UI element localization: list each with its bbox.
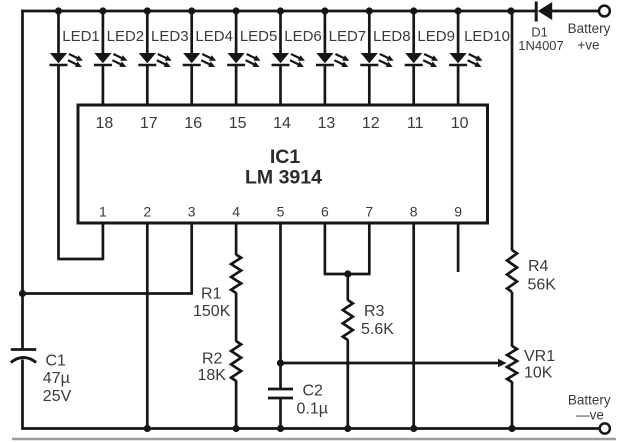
svg-text:6: 6 xyxy=(321,203,329,219)
junction: LED4 anode on +V bus xyxy=(188,7,195,14)
terminal: battery -ve circle xyxy=(600,423,610,433)
terminal: battery +ve circle xyxy=(599,6,610,17)
svg-text:LED2: LED2 xyxy=(107,28,145,45)
junction: pin 8 wire on bottom bus xyxy=(410,425,417,432)
wire: LED1 cathode elbow to pin 1 xyxy=(57,258,103,261)
wire: bottom -ve bus xyxy=(21,427,599,430)
junction: LED3 anode on +V bus xyxy=(144,7,151,14)
svg-text:LED1: LED1 xyxy=(62,28,100,45)
potentiometer VR1 10K xyxy=(507,346,517,382)
svg-text:R4: R4 xyxy=(528,258,549,275)
LED LED5 xyxy=(227,10,260,107)
junction: LED2 anode on +V bus xyxy=(99,7,106,14)
junction: R3 on bottom bus xyxy=(344,425,351,432)
svg-text:VR1: VR1 xyxy=(524,348,555,365)
wire: R3 top lead xyxy=(346,274,349,301)
svg-text:LED10: LED10 xyxy=(464,28,510,45)
svg-text:17: 17 xyxy=(140,115,158,132)
wire: pin 1 stub xyxy=(102,223,105,260)
svg-text:8: 8 xyxy=(410,203,418,219)
wire: signal node down to C2 xyxy=(279,363,282,389)
svg-text:LM 3914: LM 3914 xyxy=(245,167,322,189)
svg-text:1: 1 xyxy=(99,203,107,219)
svg-text:+ve: +ve xyxy=(577,37,599,52)
junction: signal node (pin5 / C2 / VR1 wiper wire) xyxy=(277,359,284,366)
svg-text:9: 9 xyxy=(454,203,462,219)
svg-text:LED9: LED9 xyxy=(417,28,455,45)
LED LED9 xyxy=(405,10,438,107)
wire: R2 to bottom bus xyxy=(235,381,238,429)
svg-text:3: 3 xyxy=(188,203,196,219)
svg-text:16: 16 xyxy=(184,115,202,132)
svg-text:5: 5 xyxy=(277,203,285,219)
svg-text:47µ: 47µ xyxy=(43,370,70,387)
LED LED7 xyxy=(316,10,349,107)
svg-text:R1: R1 xyxy=(201,286,222,303)
svg-text:10K: 10K xyxy=(524,365,553,382)
junction: R3 top node xyxy=(344,270,351,277)
wire: pin 9 open stub xyxy=(457,223,460,272)
svg-text:LED4: LED4 xyxy=(195,28,233,45)
wire: D1 anode to battery +ve xyxy=(552,10,599,13)
LED LED6 xyxy=(272,10,305,107)
junction: right rail on bottom bus xyxy=(508,425,515,432)
svg-text:1N4007: 1N4007 xyxy=(518,38,564,53)
junction: LED8 anode on +V bus xyxy=(366,7,373,14)
svg-text:4: 4 xyxy=(232,203,240,219)
junction: LED10 anode on +V bus xyxy=(455,7,462,14)
svg-text:25V: 25V xyxy=(43,388,72,405)
svg-text:LED6: LED6 xyxy=(284,28,322,45)
wire: pin6-pin7 link xyxy=(324,273,371,276)
LED LED10 xyxy=(449,10,482,107)
svg-text:C2: C2 xyxy=(303,383,324,400)
svg-text:5.6K: 5.6K xyxy=(361,321,394,338)
svg-text:Battery: Battery xyxy=(568,21,611,36)
wire: pin 3 stub down xyxy=(190,223,193,294)
wire: right rail VR1 to bottom bus xyxy=(511,382,514,429)
svg-text:15: 15 xyxy=(229,115,247,132)
capacitor C2 0.1u plates xyxy=(268,388,293,391)
svg-text:C1: C1 xyxy=(46,353,67,370)
svg-text:—ve: —ve xyxy=(576,408,604,423)
resistor R3 5.6K xyxy=(343,300,353,340)
svg-text:0.1µ: 0.1µ xyxy=(297,401,328,418)
junction: right rail on +V bus xyxy=(507,7,514,14)
LED LED8 xyxy=(360,10,393,107)
LED LED4 xyxy=(183,10,216,107)
svg-text:LED3: LED3 xyxy=(151,28,189,45)
svg-text:13: 13 xyxy=(318,115,336,132)
LED LED3 xyxy=(138,10,171,107)
svg-text:Battery: Battery xyxy=(568,393,611,408)
wire: pin 3 to left rail xyxy=(23,292,193,295)
junction: pin 3 wire on left rail xyxy=(19,290,26,297)
wire: pin 5 down to signal node xyxy=(279,223,282,363)
svg-text:18: 18 xyxy=(96,115,114,132)
wire: pin 6 stub down xyxy=(324,223,327,274)
capacitor C1 curved bottom plate xyxy=(11,358,36,363)
svg-text:LED7: LED7 xyxy=(329,28,367,45)
junction: C2 on bottom bus xyxy=(277,425,284,432)
capacitor C1 47u/25V top plate xyxy=(11,348,36,351)
svg-text:7: 7 xyxy=(365,203,373,219)
diode D1 (1N4007) cathode bar xyxy=(535,2,538,22)
svg-text:LED8: LED8 xyxy=(373,28,411,45)
junction: LED7 anode on +V bus xyxy=(321,7,328,14)
svg-text:10: 10 xyxy=(451,115,469,132)
wire: left rail (from +V bus to bottom bus) xyxy=(21,10,24,350)
svg-text:LED5: LED5 xyxy=(240,28,278,45)
junction: LED9 anode on +V bus xyxy=(410,7,417,14)
svg-text:150K: 150K xyxy=(193,303,231,320)
svg-text:12: 12 xyxy=(362,115,380,132)
wire: R3 bottom to bottom bus (crosses signal wire) xyxy=(346,340,349,429)
svg-text:14: 14 xyxy=(273,115,291,132)
wire: pin 7 stub down xyxy=(368,223,371,274)
wire: pin 4 stub xyxy=(235,223,238,255)
LED LED2 xyxy=(94,10,127,107)
resistor R4 56K xyxy=(507,250,517,292)
svg-text:IC1: IC1 xyxy=(270,146,301,168)
svg-text:2: 2 xyxy=(143,203,151,219)
wire: right rail R4 to VR1 xyxy=(511,292,514,347)
svg-text:18K: 18K xyxy=(198,367,227,384)
VR1 wiper arrow head xyxy=(498,359,507,367)
junction: pin 2 wire on bottom bus xyxy=(144,425,151,432)
resistor R2 18K xyxy=(231,341,241,381)
wire: C2 to bottom bus xyxy=(279,398,282,429)
junction: LED5 anode on +V bus xyxy=(233,7,240,14)
svg-text:11: 11 xyxy=(407,115,424,132)
decorative baseline xyxy=(12,438,616,440)
wire: pin 8 to bottom bus (crosses signal wire) xyxy=(412,223,415,429)
wire: right rail top (bus to R4) xyxy=(511,11,514,251)
svg-text:R2: R2 xyxy=(202,351,223,368)
resistor R1 150K xyxy=(231,255,241,294)
junction: R2 on bottom bus xyxy=(233,425,240,432)
LED LED1 xyxy=(50,10,83,259)
junction: LED6 anode on +V bus xyxy=(277,7,284,14)
wire: left rail below C1 xyxy=(21,360,24,429)
wire: +V top bus xyxy=(21,10,536,13)
junction: LED1 anode on +V bus xyxy=(55,7,62,14)
wire: signal node to VR1 wiper xyxy=(281,362,502,365)
wire: R1 to R2 xyxy=(235,293,238,342)
op-amp / IC U1: IC1 LM3914 box xyxy=(78,105,488,223)
svg-text:R3: R3 xyxy=(364,303,385,320)
diode D1 triangle xyxy=(538,2,552,20)
svg-text:56K: 56K xyxy=(528,277,557,294)
wire: pin 2 to bottom bus xyxy=(146,223,149,429)
